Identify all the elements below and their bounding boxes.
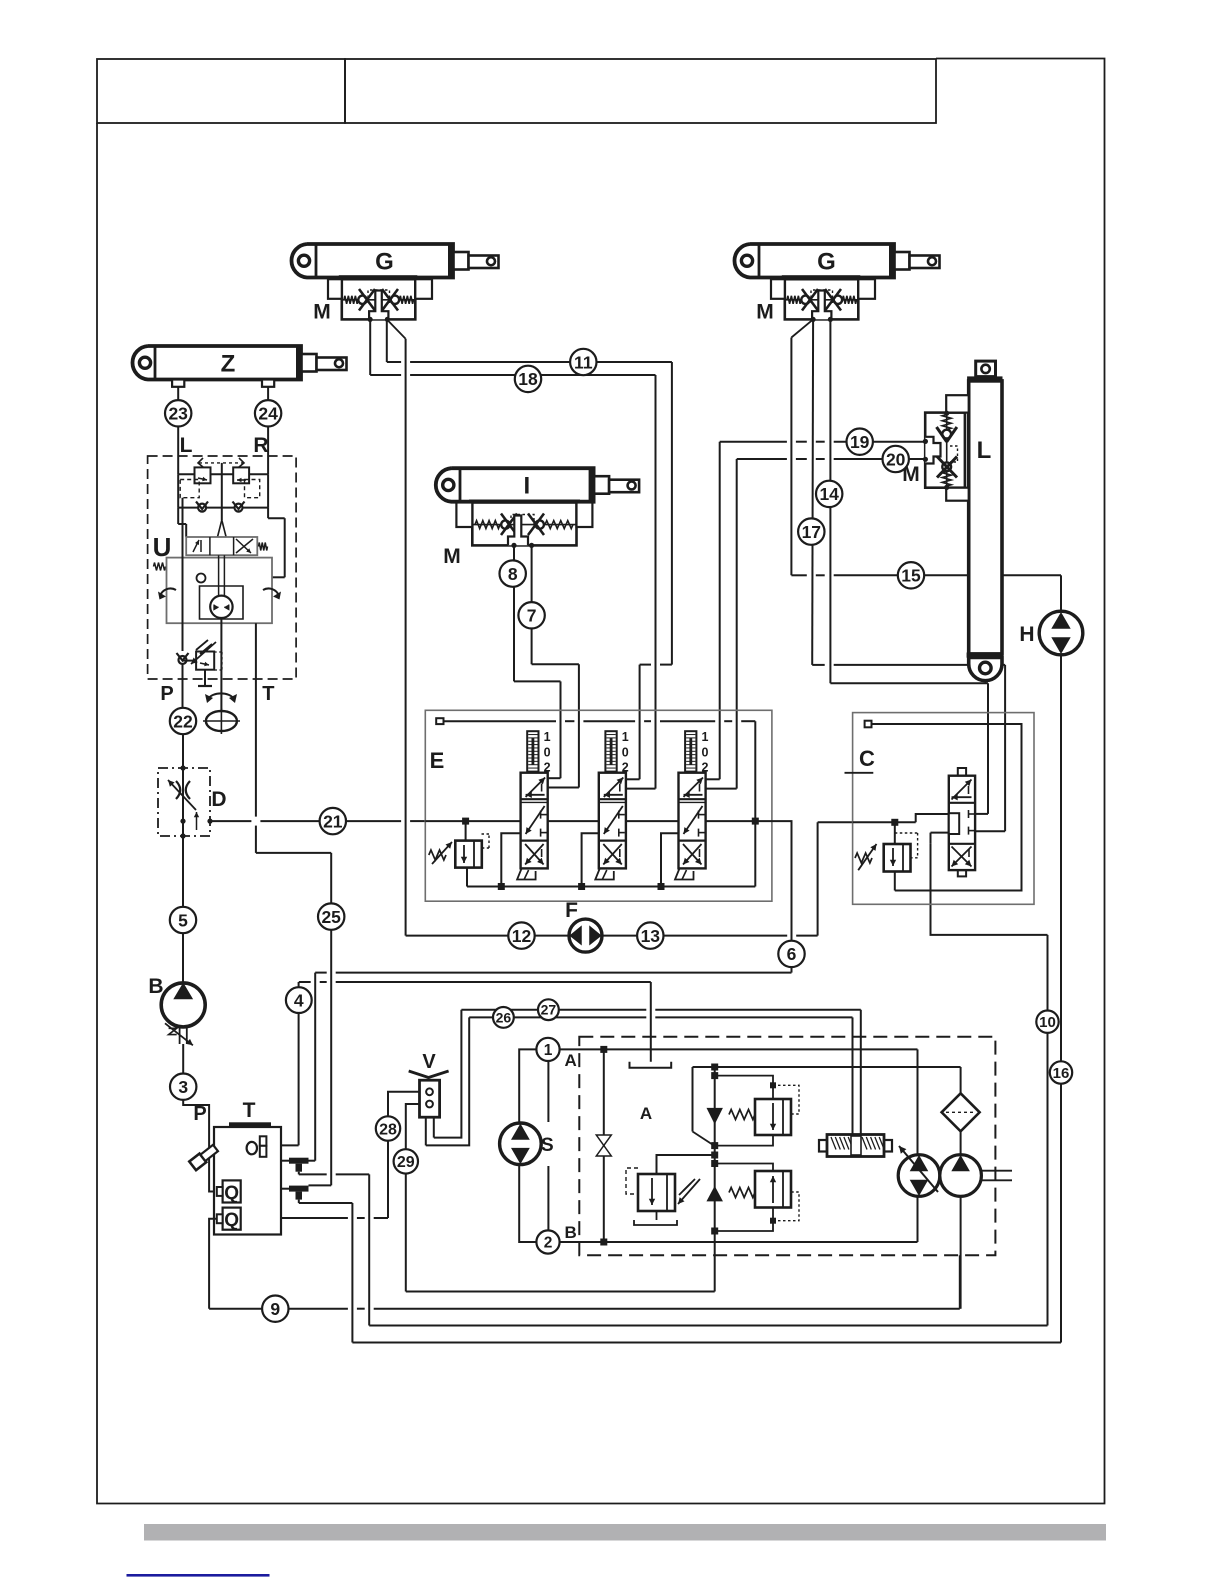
wire: I M right port down through node 7 to E valve1 lower port	[531, 545, 533, 664]
bus4: tank fitting2 line across bottom	[351, 1203, 353, 1343]
valve block M under G1: right wing	[415, 279, 432, 299]
valve block M under G2: body	[782, 275, 861, 279]
pump B variable arrow	[179, 1027, 181, 1045]
proportional valve V2: section3 cross	[603, 844, 622, 865]
wire 20: E valve3 lower port up and right to L M block	[736, 459, 738, 789]
block C enclosure	[853, 713, 1034, 905]
svg-text:0: 0	[622, 746, 629, 760]
block E relief valve	[462, 818, 469, 825]
svg-text:22: 22	[173, 711, 193, 731]
wire 21: D to E gallery	[210, 820, 251, 822]
node 27	[538, 999, 559, 1020]
node 6	[778, 941, 804, 967]
svg-text:T: T	[262, 683, 274, 705]
wire 26: to block A heat exchanger	[469, 1016, 646, 1018]
proportional valve V3 drain hook	[661, 833, 679, 886]
wire: fixed pump suction down to bus2 (drawn with bus)	[960, 1196, 962, 1308]
wire 27: to block A heat exchanger	[461, 1009, 646, 1011]
U: relief adjust arrow	[191, 642, 216, 664]
component V: body	[420, 1080, 440, 1117]
steering wheel symbol	[206, 711, 237, 731]
page frame outer border	[97, 59, 1105, 1504]
svg-text:H: H	[1019, 623, 1034, 646]
node 4	[286, 987, 312, 1013]
block C pilot port square	[865, 721, 872, 728]
proportional valve V3: coil scale	[685, 731, 696, 771]
svg-text:B: B	[565, 1223, 577, 1242]
wire: fitting1 riser	[314, 973, 316, 1161]
cylinder Z rod eye	[335, 359, 343, 367]
cylinder Z piston bar	[296, 346, 302, 380]
svg-text:R: R	[253, 434, 268, 457]
svg-text:18: 18	[518, 369, 538, 389]
node 19	[847, 429, 873, 455]
node 10	[1036, 1011, 1058, 1033]
tank T: fitting 1 stem line	[298, 1172, 300, 1175]
node 2	[536, 1230, 559, 1253]
valve block M under G1: dotted pilot box	[368, 290, 390, 303]
block A gallery check down	[708, 1109, 722, 1123]
footer gray bar	[144, 1524, 1106, 1541]
block A inner box left edge	[603, 1049, 605, 1242]
cylinder G1 piston bar	[448, 244, 454, 278]
valve block M of L: upper check valve	[942, 430, 951, 439]
valve block M of L: wing junction dots	[944, 411, 949, 416]
block A pump shaft	[981, 1170, 1012, 1172]
svg-text:1: 1	[544, 1042, 553, 1059]
node 29	[394, 1149, 418, 1173]
block C valve section1 arrows	[952, 780, 972, 800]
flow control D: dash-dot box	[158, 768, 210, 836]
tank T: Q box lower	[223, 1208, 241, 1230]
tank T: right exit to node 28 riser	[281, 1217, 348, 1219]
wire: node 6 down then left to tank fitting1 riser	[791, 967, 793, 973]
proportional valve V1: section3 cross	[525, 844, 544, 865]
steering unit U: dashed enclosure	[148, 456, 297, 679]
flow control D: junction dots	[180, 765, 185, 770]
U: curved arrow right	[263, 588, 279, 596]
valve block M under I: left wing	[456, 503, 472, 528]
block A relief upper to gallery	[715, 1135, 773, 1146]
proportional valve V1: section2 arrows	[526, 806, 545, 834]
cylinder I eye	[443, 479, 454, 490]
valve block M of L: dotted pilot	[950, 446, 958, 462]
valve block M under G1: center pedestal	[369, 291, 388, 320]
cylinder L: top clevis	[976, 361, 996, 377]
node 5	[170, 907, 196, 933]
svg-text:28: 28	[379, 1121, 397, 1138]
cylinder L: bottom cap	[969, 658, 1002, 681]
node 18	[515, 366, 541, 392]
svg-text:F: F	[565, 899, 578, 922]
valve block M under G2: port dots	[811, 317, 816, 322]
cylinder G1 barrel	[291, 244, 453, 278]
valve block M under I: dotted pilot box	[511, 515, 534, 529]
proportional valve V2 drain hook	[582, 833, 599, 886]
cylinder G2 rod	[910, 256, 940, 269]
svg-text:1: 1	[702, 730, 709, 744]
cylinder I barrel	[436, 468, 594, 502]
valve block M under G1: left wing	[328, 279, 342, 299]
cylinder Z rod collar	[302, 354, 317, 372]
svg-text:M: M	[313, 301, 331, 324]
U: T return line inside	[255, 623, 257, 679]
tank T: fitting 1	[289, 1158, 309, 1164]
node 20	[883, 446, 909, 472]
pump B circle	[161, 983, 205, 1027]
U: curved arrow left	[160, 588, 176, 596]
U: relief valve right box	[233, 467, 249, 483]
svg-text:M: M	[443, 545, 461, 568]
valve block M under G2: dotted pilot box	[811, 290, 833, 303]
block A inner box right edge via pump	[917, 1049, 919, 1154]
valve block M under G1: body	[339, 275, 418, 279]
U: check valve line	[177, 474, 179, 507]
wire 17: G2 M left port down to valve C port	[811, 319, 814, 665]
block E pilot rail	[444, 720, 557, 722]
tank T: bottom left exit to node 9	[209, 1219, 217, 1309]
node 23	[165, 400, 191, 426]
cylinder I rod	[609, 480, 639, 493]
cylinder G2 rod eye	[928, 257, 936, 265]
valve block M of L: body	[925, 413, 965, 488]
svg-text:4: 4	[294, 990, 304, 1010]
node 12	[508, 922, 534, 948]
node 1	[536, 1038, 559, 1061]
proportional valve V2: coil scale	[605, 731, 616, 771]
block A heat exchanger	[819, 1140, 827, 1152]
block A shutoff valve	[596, 1135, 611, 1146]
cylinder Z port stub left	[172, 380, 184, 387]
wire T: U unit down, jump 21, to node 25, down to tank fitting2	[255, 679, 257, 817]
block E gallery junction square	[752, 818, 759, 825]
block A tank symbol	[630, 1062, 672, 1068]
proportional valve V2: section1 arrows	[604, 778, 624, 798]
block A dashed enclosure	[579, 1037, 995, 1256]
U: check valve left	[198, 504, 206, 512]
valve block M under G2: right spring	[843, 296, 857, 304]
tank T: fitting 2	[289, 1186, 309, 1192]
svg-text:21: 21	[323, 811, 343, 831]
valve block M under G2: left spring	[787, 296, 801, 304]
svg-text:25: 25	[321, 907, 341, 927]
svg-text:P: P	[160, 683, 173, 705]
wire P: U to node 22 to D block	[182, 679, 184, 708]
svg-text:G: G	[375, 248, 394, 275]
bus2: node 9 line to pump suction	[209, 1308, 348, 1310]
svg-text:29: 29	[397, 1154, 415, 1171]
block C valve section3 cross	[952, 847, 972, 867]
svg-text:L: L	[977, 437, 992, 464]
U: small circle sensor	[197, 574, 206, 583]
svg-text:9: 9	[270, 1299, 280, 1319]
valve block M under G1: internal line	[343, 299, 415, 301]
block C gallery: entry jog into valve	[853, 821, 916, 823]
svg-text:0: 0	[702, 746, 709, 760]
valve block M of L: pedestal	[925, 437, 940, 464]
wire: pump B to node 3	[182, 1044, 184, 1074]
wire: E gallery junction to node 6 line	[755, 821, 791, 941]
cylinder I piston bar	[589, 468, 595, 502]
valve block M of L: port dots	[923, 439, 928, 444]
block A pressure reducing valve	[638, 1174, 675, 1211]
U: line gyrator down to wheel	[220, 618, 222, 711]
block A diagonal to gallery	[692, 1067, 694, 1132]
valve block M under G2: pilot check valve left	[801, 296, 809, 304]
U: top interconnect line	[178, 473, 268, 475]
valve block M under I: port dots	[511, 543, 516, 548]
U: spool right section cross	[236, 539, 253, 553]
valve block M under I: center pedestal	[508, 516, 528, 546]
node 11	[570, 349, 596, 375]
block E gallery line 21 across	[425, 820, 520, 822]
tank T: top breather bar	[229, 1122, 271, 1127]
svg-text:16: 16	[1053, 1065, 1070, 1082]
valve block M under G1: pilot check valve left	[358, 296, 366, 304]
svg-text:Q: Q	[224, 1210, 239, 1231]
cylinder L: barrel	[969, 381, 1002, 654]
wire: I M left port down through node 8 to E valve1 upper port	[513, 545, 515, 681]
svg-text:L: L	[180, 434, 193, 457]
valve block M of L: upper spring	[942, 415, 951, 430]
valve block M under G2: right wing	[858, 279, 875, 299]
svg-text:11: 11	[574, 352, 593, 372]
svg-text:Q: Q	[224, 1183, 239, 1204]
valve block M under I: body	[469, 500, 580, 504]
wire 18: G1 M left port down, right to E valve2 lower port	[369, 319, 371, 375]
svg-text:12: 12	[512, 926, 532, 946]
svg-text:5: 5	[178, 910, 188, 930]
cylinder I rod eye	[628, 481, 636, 489]
proportional valve V1: drain pennant	[517, 868, 536, 879]
proportional valve V2: body	[599, 773, 626, 869]
svg-text:T: T	[243, 1099, 256, 1122]
wire 19: E valve3 upper port up and right to L M block	[719, 442, 721, 780]
block A inner box top edge	[560, 1048, 604, 1050]
block A relief lower	[755, 1171, 791, 1208]
svg-text:15: 15	[901, 566, 921, 586]
cylinder L: clevis eye	[981, 365, 989, 373]
wire F line: 12-line corner to C riser	[406, 935, 788, 937]
wire: Z left port to node 23	[177, 387, 179, 400]
tank T: right port line to node 4 riser	[281, 1144, 299, 1146]
flow control D: restrictor arcs	[176, 781, 180, 799]
svg-text:C: C	[859, 746, 875, 771]
block E relief to bus	[466, 868, 468, 887]
node 17	[798, 518, 824, 544]
block A center gallery	[714, 1067, 716, 1231]
wire: V left leg to node 26 riser	[426, 1017, 469, 1145]
block A PRV dashed pilot	[626, 1168, 638, 1194]
U: ball check on P line	[182, 498, 184, 651]
block C relief to tank rail	[894, 872, 896, 891]
block C label stub line	[845, 772, 874, 774]
valve block M under G1: port dots	[368, 317, 373, 322]
U: spool right spring	[259, 543, 268, 551]
U: gyrator circle	[210, 596, 232, 618]
cylinder I rod collar	[594, 476, 609, 494]
svg-text:13: 13	[641, 926, 661, 946]
block A PRV bottom tank bracket	[634, 1220, 677, 1225]
tank T: level gauge O	[247, 1142, 257, 1154]
svg-text:17: 17	[802, 522, 821, 542]
wire: V lower left port to node 29 down to bus1	[406, 1104, 420, 1292]
block A filter links	[960, 1067, 962, 1093]
node 21	[320, 808, 346, 834]
svg-text:0: 0	[544, 746, 551, 760]
wire 15: G2 M left port diagonal down to pump H	[791, 319, 813, 337]
node 26	[493, 1007, 514, 1028]
proportional valve V2: drain pennant	[595, 868, 614, 879]
node 9	[262, 1296, 288, 1322]
block E pilot port square	[436, 718, 443, 724]
U: left dashed pilot box	[180, 480, 199, 498]
U: check to relief link	[183, 660, 197, 662]
block A relief upper	[755, 1099, 791, 1135]
component V: legs	[425, 1117, 427, 1145]
wire: node 3 to tank Q1	[183, 1100, 217, 1192]
valve block M under I: left spring	[475, 521, 500, 529]
cylinder Z rod	[317, 358, 347, 371]
flow control D: through line	[182, 768, 184, 836]
block C relief variable arrow	[858, 844, 876, 870]
U: check valve right	[235, 504, 243, 512]
tank T: filler plug diagonal	[189, 1144, 219, 1171]
svg-text:26: 26	[496, 1009, 512, 1025]
wire: D down through node 5 to pump B	[182, 836, 184, 907]
wire: node 4 to A tank symbol	[299, 981, 311, 983]
svg-text:P: P	[193, 1103, 206, 1125]
tank T: fitting 2 left link	[281, 1188, 289, 1190]
cylinder L: top cap band	[967, 376, 1002, 381]
svg-text:Z: Z	[221, 350, 236, 377]
wire 11: G1 M right port down, right, down to E valve2 upper port	[386, 319, 388, 362]
pump S circle	[500, 1123, 542, 1165]
flow control D: variable arrow	[168, 780, 196, 810]
U: spring left	[154, 563, 166, 571]
cylinder G1 rod eye	[487, 257, 495, 265]
cylinder Z barrel	[132, 346, 301, 380]
proportional valve V1 drain hook	[501, 833, 520, 886]
node 3	[170, 1074, 196, 1100]
svg-text:14: 14	[819, 484, 839, 504]
svg-text:3: 3	[178, 1077, 188, 1097]
svg-text:1: 1	[622, 730, 629, 744]
wire: Z right port to node 24	[267, 387, 269, 400]
U: spool left section arrow	[193, 540, 199, 552]
wire: V right leg to node 27 riser	[434, 1010, 462, 1138]
pump F circle	[569, 919, 602, 952]
wire: V upper left port to node 28	[388, 1092, 420, 1218]
wire: C drain to node 10 down to bus3	[931, 844, 1048, 935]
svg-text:I: I	[523, 472, 530, 499]
wire 12: G1 M right port diagonal down to F line	[387, 319, 406, 338]
svg-text:G: G	[817, 248, 836, 275]
valve block M of L: bottom wing	[946, 488, 969, 501]
U: spool valve body	[186, 537, 257, 555]
node 16	[1050, 1061, 1072, 1083]
node 8	[500, 560, 526, 586]
svg-text:10: 10	[1039, 1014, 1056, 1031]
wire R: node 24 down into steering unit	[267, 427, 269, 475]
U: twin center lines to gyrator	[218, 555, 220, 595]
svg-text:23: 23	[168, 404, 188, 424]
svg-text:2: 2	[544, 1235, 553, 1252]
block A gallery check up	[708, 1188, 722, 1201]
svg-text:E: E	[430, 748, 445, 773]
valve block M of L: internal vertical line	[946, 414, 948, 488]
valve block M of L: lower check valve	[942, 462, 951, 471]
valve block M under I: right wing	[577, 503, 593, 528]
valve block M under G1: pilot check valve right	[391, 296, 399, 304]
cylinder G2 barrel	[734, 244, 894, 278]
valve block M under G2: left wing	[771, 279, 785, 299]
U: variable relief valve bottom	[196, 652, 214, 670]
svg-text:V: V	[422, 1051, 436, 1073]
U: gray feedback box	[167, 558, 273, 624]
node 15	[898, 562, 924, 588]
node 14	[816, 481, 842, 507]
svg-text:S: S	[541, 1135, 554, 1156]
svg-text:B: B	[148, 975, 163, 998]
svg-text:6: 6	[787, 944, 797, 964]
svg-text:1: 1	[544, 730, 551, 744]
valve block M under G1: left spring	[344, 296, 358, 304]
block A fixed pump	[940, 1155, 982, 1197]
svg-text:20: 20	[886, 449, 906, 469]
valve block M under I: right spring	[545, 521, 573, 529]
footer link underline	[127, 1574, 270, 1577]
valve block M under I: internal line	[473, 524, 576, 526]
U: relief valve left box	[195, 467, 211, 483]
U: metering unit bracket	[200, 586, 244, 594]
cylinder G2 eye	[741, 255, 752, 266]
U: pilot dotted crossover	[199, 462, 243, 464]
proportional valve V3: section1 arrows	[684, 778, 704, 798]
tank T: fitting 2 stem line	[298, 1200, 300, 1203]
valve block M under G1: right spring	[400, 296, 414, 304]
block A variable pump	[898, 1155, 940, 1197]
wire: broken segments between node1 and node2	[547, 1062, 549, 1122]
svg-text:8: 8	[508, 564, 518, 584]
block C valve lower-left port to drain	[931, 832, 949, 834]
cylinder G2 rod collar	[895, 252, 910, 270]
bus1: node 29 line to A center gallery	[406, 1291, 715, 1293]
cylinder G2 piston bar	[889, 244, 895, 278]
U: center line	[221, 463, 223, 474]
node 28	[376, 1116, 400, 1140]
U: lines from check line down to spool	[177, 508, 179, 524]
proportional valve V3: section2 arrows	[684, 806, 703, 834]
block A PRV pilot to gallery	[657, 1155, 715, 1174]
svg-text:27: 27	[541, 1002, 557, 1018]
cylinder G1 rod collar	[454, 252, 469, 270]
svg-text:A: A	[640, 1104, 652, 1123]
valve block M under G2: center pedestal	[812, 291, 831, 320]
proportional valve V1: body	[521, 773, 548, 869]
proportional valve V1: coil scale	[527, 731, 538, 771]
header box 1	[97, 59, 345, 123]
proportional valve V3: drain pennant	[675, 868, 694, 879]
proportional valve V3: body	[679, 773, 706, 869]
block A PRV variable arrow	[678, 1179, 700, 1204]
steering wheel turn arrow	[208, 693, 234, 699]
node 22	[170, 708, 196, 734]
cylinder G1 rod	[469, 256, 499, 269]
svg-text:M: M	[756, 301, 774, 324]
block A filter diamond	[942, 1093, 980, 1131]
cylinder Z eye	[139, 357, 150, 368]
